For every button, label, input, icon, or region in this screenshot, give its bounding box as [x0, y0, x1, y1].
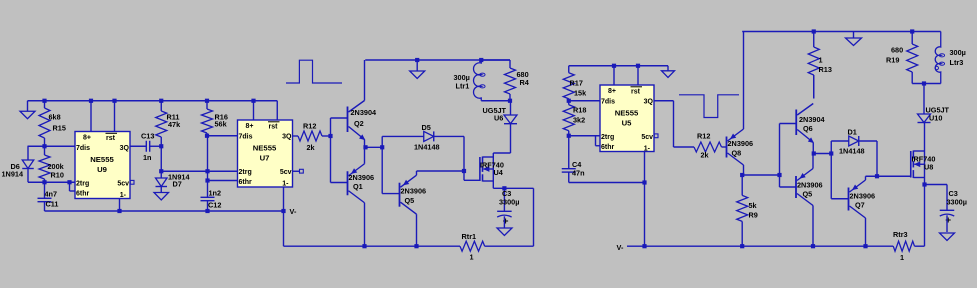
svg-text:Q6: Q6: [803, 124, 813, 133]
capacitor C11: [38, 182, 52, 211]
node dot D5 branch: [380, 145, 384, 149]
svg-text:2N3906: 2N3906: [850, 192, 876, 201]
wire R18 to U5 2trg: [569, 135, 600, 137]
diode U10 UG5JT: [918, 84, 931, 123]
node dot Q1 col rail: [362, 244, 366, 248]
wire U8 source: [924, 178, 926, 185]
wire 6thr jog U9: [70, 182, 76, 191]
svg-text:U10: U10: [929, 114, 942, 123]
svg-text:8+: 8+: [608, 88, 616, 95]
node dot V- right: [642, 244, 646, 248]
label C11 4n7: [45, 190, 59, 209]
wire Q5r collector down: [812, 206, 814, 247]
label Q5 left 2N3906: [401, 187, 427, 206]
resistor R11: [156, 101, 167, 147]
node dot mid gnd: [415, 58, 419, 62]
resistor R12 right: [694, 142, 727, 152]
wire D5 anode jog: [382, 136, 424, 147]
wire U9 rst: [114, 101, 116, 132]
mosfet U4 IRF740: [480, 157, 493, 182]
resistor R19: [907, 32, 918, 84]
svg-text:1-: 1-: [282, 181, 289, 188]
wire U7 pin1 down: [283, 188, 285, 247]
node dot R9 bottom: [740, 244, 744, 248]
transistor Q2 2N3904: [348, 101, 365, 140]
label U10 UG5JT: [926, 106, 950, 123]
node dot base bus: [777, 173, 781, 177]
node dot U7 8+: [251, 99, 255, 103]
svg-text:3Q: 3Q: [120, 145, 130, 152]
wire U5 rst: [637, 66, 639, 85]
svg-text:R9: R9: [749, 211, 758, 220]
svg-text:2trg: 2trg: [601, 134, 614, 141]
svg-text:U5: U5: [622, 119, 633, 128]
node dot R18 bottom: [567, 134, 571, 138]
resistor Rtr1: [460, 241, 534, 251]
svg-text:1n2: 1n2: [209, 189, 222, 198]
svg-text:R10: R10: [51, 171, 64, 180]
wire R13 to Q6 collector: [813, 75, 815, 99]
wire U5 pin1 down: [644, 152, 646, 247]
label Ltr1 300u: [454, 73, 470, 91]
node dot trg row C12: [205, 169, 209, 173]
resistor R9: [737, 175, 748, 246]
svg-text:V-: V-: [617, 243, 624, 252]
mosfet U8 IRF740: [911, 151, 925, 179]
label R9 5k: [749, 201, 758, 220]
svg-text:NE555: NE555: [90, 155, 114, 164]
resistor Rtr3: [893, 241, 924, 251]
phase marker Lts3: [935, 66, 938, 69]
wire D1 cathode: [859, 141, 877, 176]
wire C4 to pin1 node: [569, 182, 645, 184]
wire Q2 base jog: [331, 118, 348, 136]
wire source to C3 right: [925, 185, 948, 211]
svg-text:rst: rst: [106, 135, 116, 142]
ground under D7: [154, 193, 169, 201]
wire U5 3Q out: [654, 101, 694, 147]
svg-text:2trg: 2trg: [76, 180, 89, 187]
transistor Q5 2N3906 left: [400, 175, 417, 214]
wire U7 5cv stub: [293, 169, 303, 173]
capacitor C4: [562, 136, 576, 183]
svg-text:1N4148: 1N4148: [839, 147, 865, 156]
wire Q8 emitter up: [743, 32, 745, 130]
svg-text:Q8: Q8: [732, 149, 742, 158]
wire top rail U5: [569, 65, 668, 67]
svg-text:R4: R4: [520, 78, 530, 87]
wire Q5r emitter up: [812, 154, 814, 169]
diode U6 UG5JT: [504, 101, 517, 124]
capacitor C3 left: [497, 188, 512, 228]
svg-text:3Q: 3Q: [644, 98, 654, 105]
svg-text:R12: R12: [697, 132, 710, 141]
node dot U4 source: [502, 186, 506, 190]
transistor Q8 2N3906: [727, 129, 744, 165]
label U4 IRF740: [480, 161, 504, 178]
svg-text:R17: R17: [570, 79, 583, 88]
resistor R17: [563, 66, 574, 101]
wire Q5r base jog: [780, 175, 797, 187]
label D6 1N914: [2, 162, 24, 179]
ground at top-left rail: [20, 101, 35, 119]
wire Q5 emitter to gate node: [417, 171, 465, 175]
label C12 1n2: [208, 189, 221, 210]
ground U5 rail: [662, 66, 675, 78]
node dot R15 top: [42, 99, 46, 103]
svg-text:R15: R15: [53, 124, 66, 133]
wire C12 branch: [207, 136, 209, 198]
svg-text:D5: D5: [422, 123, 431, 132]
svg-text:2N3906: 2N3906: [349, 173, 375, 182]
wire 6thr row to U7: [208, 180, 238, 182]
transistor Q1 2N3906: [348, 164, 365, 203]
ground mid rail: [410, 60, 425, 79]
svg-text:3300µ: 3300µ: [499, 198, 519, 207]
svg-text:6thr: 6thr: [239, 179, 253, 186]
svg-text:R18: R18: [573, 106, 586, 115]
wire trg row to U7: [161, 170, 237, 172]
diode D6: [22, 160, 34, 182]
svg-text:R19: R19: [886, 56, 899, 65]
capacitor C12: [201, 197, 215, 211]
node dot Q8 col node: [740, 173, 744, 177]
wire V- rail upper left: [45, 210, 284, 212]
svg-text:47k: 47k: [168, 120, 181, 129]
wire top rail right: [742, 31, 941, 33]
node dot U5 pin1 node: [642, 180, 646, 184]
diode D1: [849, 136, 859, 146]
wire pulse annotation right: [679, 95, 739, 118]
svg-text:2N3906: 2N3906: [401, 187, 427, 196]
wire U9 pin1: [119, 199, 121, 212]
svg-text:5cv: 5cv: [641, 134, 653, 141]
svg-text:NE555: NE555: [253, 144, 277, 153]
label D1 1N4148: [839, 128, 865, 156]
svg-text:2k: 2k: [701, 151, 710, 160]
svg-text:3Q: 3Q: [282, 133, 292, 140]
svg-text:2N3904: 2N3904: [799, 115, 826, 124]
svg-text:6thr: 6thr: [76, 190, 90, 197]
wire Q7 collector down: [865, 218, 867, 246]
diode D7: [156, 178, 168, 193]
label Lts3 300u: [950, 48, 966, 67]
wire top rail left section: [28, 100, 278, 102]
svg-text:2trg: 2trg: [239, 169, 252, 176]
label Rtr1 1: [462, 232, 477, 262]
svg-text:56k: 56k: [215, 120, 228, 129]
label R17 15k: [570, 79, 588, 98]
svg-text:15k: 15k: [574, 89, 587, 98]
wire bottom rail left: [284, 245, 461, 247]
label R15 6k8: [49, 113, 66, 133]
node dot U8 source: [922, 182, 926, 186]
svg-text:Ltr1: Ltr1: [456, 82, 470, 91]
svg-text:C12: C12: [208, 201, 221, 210]
wire U8 drain up: [924, 123, 926, 152]
svg-text:680: 680: [891, 46, 903, 55]
op-amp U5 NE555 box: [600, 85, 654, 153]
node dot R16 bottom: [205, 134, 209, 138]
resistor R13: [808, 32, 819, 99]
svg-text:6thr: 6thr: [601, 144, 615, 151]
label R16 56k: [215, 113, 228, 129]
node dot R11 bottom: [159, 144, 163, 148]
op-amp U7 NE555 box: [238, 120, 293, 188]
svg-text:U9: U9: [97, 165, 107, 174]
svg-text:1-: 1-: [120, 192, 127, 199]
svg-text:R12: R12: [303, 122, 316, 131]
label C3 left 3300u: [499, 189, 519, 207]
svg-text:1: 1: [819, 56, 823, 65]
node dot V- corner: [281, 209, 285, 213]
node dot U5 8+ rail: [612, 64, 616, 68]
label V- left: [290, 207, 297, 216]
diode D5: [424, 131, 434, 141]
wire Q7 base drop: [831, 154, 848, 199]
ground under C3 left: [497, 228, 512, 236]
label Q8 2N3906: [728, 139, 754, 158]
svg-text:Q5: Q5: [405, 196, 415, 205]
transistor Q7 2N3906: [849, 180, 866, 218]
svg-text:2k: 2k: [307, 143, 316, 152]
svg-text:C11: C11: [46, 200, 59, 209]
wire U4 gate jog: [464, 171, 480, 180]
node dot Q7 col rail: [863, 244, 867, 248]
node dot 6thr row: [205, 178, 209, 182]
svg-text:2N3906: 2N3906: [728, 139, 754, 148]
svg-text:4n7: 4n7: [45, 190, 58, 199]
node dot Q5 col rail: [414, 244, 418, 248]
svg-text:1: 1: [470, 253, 474, 262]
wire R16 to U7 7dis: [207, 135, 238, 137]
svg-text:U4: U4: [494, 168, 504, 177]
pin square U5 5cv: [654, 134, 658, 138]
svg-text:C13: C13: [141, 132, 154, 141]
label C4 47n: [572, 160, 585, 178]
svg-text:5cv: 5cv: [117, 180, 129, 187]
wire bottom link L R4: [481, 100, 510, 102]
wire V- rail right: [627, 245, 893, 247]
svg-text:NE555: NE555: [615, 109, 639, 118]
node dot U9 rst: [112, 99, 116, 103]
label D7 1N914: [168, 173, 190, 189]
node dot U9 8+: [89, 99, 93, 103]
svg-text:300µ: 300µ: [950, 48, 966, 57]
resistor R18: [563, 101, 574, 136]
wire R19 Lts3 bottom: [912, 83, 941, 85]
node dot U6 top: [508, 99, 512, 103]
wire Q2 emitter down: [364, 140, 366, 148]
svg-text:Ltr3: Ltr3: [950, 58, 964, 67]
svg-text:7dis: 7dis: [601, 98, 615, 105]
ground right rail: [846, 32, 862, 46]
wire D5 cathode to gate: [434, 136, 464, 171]
label Rtr3 1: [893, 230, 908, 262]
node dot R16 top: [205, 99, 209, 103]
svg-text:R13: R13: [819, 65, 832, 74]
wire U7 8+ supply: [253, 101, 255, 120]
label U8 IRF740: [912, 155, 936, 172]
svg-text:rst: rst: [269, 124, 279, 131]
label R13 1: [819, 56, 832, 75]
label R4 680: [517, 70, 530, 87]
wire Q6 base: [780, 123, 797, 125]
node dot Ltr1 top: [479, 58, 483, 62]
wire D6 anode drop: [27, 146, 29, 160]
svg-text:Q1: Q1: [353, 182, 363, 191]
wire Q7 emitter to gate row: [866, 176, 911, 180]
node dot trg branch: [67, 180, 71, 184]
svg-text:U8: U8: [924, 163, 933, 172]
wire Q2 collector up: [364, 60, 366, 101]
wire U7 rst: [276, 101, 278, 120]
wire Q5 collector down: [416, 214, 418, 246]
wire U4 drain up: [493, 124, 510, 157]
label Q1 2N3906: [349, 173, 375, 191]
wire rail up to source: [924, 185, 926, 247]
wire Ltr1 R4 top link: [481, 59, 510, 61]
node dot D7 branch: [159, 169, 163, 173]
inductor Lts3: [935, 32, 944, 84]
node dot R12 out: [328, 134, 332, 138]
wire base bus vertical: [779, 124, 781, 176]
label R19 680: [886, 46, 903, 65]
resistor R15: [39, 101, 50, 147]
wire U9 8+ supply: [90, 101, 92, 132]
resistor R12 left: [293, 131, 331, 141]
wire R17 to U5 7dis: [569, 100, 600, 102]
label R10 200k: [48, 162, 65, 180]
wire emitters to D1 node: [814, 153, 832, 155]
wire R11 to D7: [160, 146, 162, 178]
svg-text:3k2: 3k2: [573, 116, 585, 125]
svg-text:Q7: Q7: [855, 201, 865, 210]
node dot R10 bottom: [42, 180, 46, 184]
svg-text:1N4148: 1N4148: [414, 143, 440, 152]
node dot Q5r col rail: [811, 244, 815, 248]
label R12 left 2k: [303, 122, 316, 153]
node dot gate U4: [462, 169, 466, 173]
wire D1 anode jog: [831, 141, 849, 154]
node dot gate U8: [875, 174, 879, 178]
label Q5 right 2N3906: [797, 181, 823, 199]
label C3 right 3300u: [947, 189, 967, 207]
node dot R13 top: [812, 29, 816, 33]
label R12 right 2k: [697, 132, 710, 160]
svg-text:8+: 8+: [83, 135, 91, 142]
svg-text:Q2: Q2: [354, 119, 364, 128]
capacitor C13: [146, 141, 161, 152]
node dot U5 rst rail: [636, 64, 640, 68]
svg-text:2N3904: 2N3904: [351, 108, 378, 117]
label Q7 2N3906: [850, 192, 876, 210]
svg-text:5cv: 5cv: [280, 169, 292, 176]
svg-text:1N914: 1N914: [2, 170, 24, 179]
node dot R11 top: [159, 99, 163, 103]
wire emitters node right: [366, 146, 383, 148]
wire Q1 base drop: [331, 136, 348, 183]
svg-text:2N3906: 2N3906: [797, 181, 823, 190]
wire Q5 base drop: [382, 147, 399, 193]
wire trigger node row: [28, 181, 75, 183]
svg-text:1-: 1-: [644, 146, 651, 153]
wire C3 right branch: [504, 188, 533, 246]
svg-text:6k8: 6k8: [49, 113, 61, 122]
pin square U9 5cv: [130, 180, 134, 184]
svg-text:7dis: 7dis: [239, 133, 253, 140]
svg-text:Q5: Q5: [803, 189, 813, 198]
label C13 1n: [141, 132, 154, 163]
svg-text:5k: 5k: [749, 201, 758, 210]
node dot D1 branch: [829, 151, 833, 155]
inductor Ltr1: [474, 60, 486, 101]
svg-text:3300µ: 3300µ: [947, 198, 967, 207]
wire Q1 collector down: [364, 203, 366, 246]
ground under C3 right: [940, 233, 955, 241]
svg-text:Rtr1: Rtr1: [462, 232, 477, 241]
svg-text:1n: 1n: [143, 153, 152, 162]
label U6 UG5JT: [483, 106, 507, 123]
label Q6 2N3904: [799, 115, 826, 133]
node dot emitters right: [812, 151, 816, 155]
resistor R16: [202, 101, 213, 136]
wire U5 8+ supply: [613, 66, 615, 85]
wire U4 source: [493, 181, 504, 188]
transistor Q5 2N3906 right: [796, 169, 813, 206]
label D5 1N4148: [414, 123, 440, 152]
wire mid rail: [365, 59, 510, 61]
op-amp U9 NE555 box: [75, 132, 130, 200]
resistor R10: [39, 146, 50, 182]
wire rail to U9 7dis: [28, 145, 76, 147]
node dot U10 top: [922, 81, 926, 85]
wire Q6 emitter down: [812, 143, 814, 154]
node dot U9 pin1: [117, 209, 121, 213]
svg-text:rst: rst: [631, 89, 641, 96]
wire Q8col to basebus: [742, 174, 779, 176]
svg-text:1: 1: [900, 253, 904, 262]
svg-text:47n: 47n: [572, 169, 585, 178]
transistor Q6 2N3904: [796, 104, 813, 143]
svg-text:U7: U7: [260, 154, 270, 163]
svg-text:D1: D1: [848, 128, 857, 137]
resistor R4: [505, 60, 516, 101]
label Q2 2N3904: [351, 108, 378, 128]
node dot emitters: [363, 145, 367, 149]
wire U9 3Q out: [130, 145, 146, 147]
node dot R19 top: [910, 29, 914, 33]
node dot R15 bottom: [42, 144, 46, 148]
svg-text:D7: D7: [173, 180, 182, 189]
node dot C12 bottom: [205, 209, 209, 213]
wire Q1 emitter up: [364, 147, 366, 163]
wire Q8 collector down: [743, 165, 745, 175]
wire U5 6thr jog: [596, 136, 601, 146]
capacitor C3 right: [940, 210, 955, 232]
node dot R17 bottom: [567, 99, 571, 103]
wire pulse annotation left: [286, 60, 342, 83]
label V- right: [617, 243, 624, 252]
label R18 3k2: [573, 106, 586, 125]
svg-text:V-: V-: [290, 207, 297, 216]
label R11 47k: [167, 113, 182, 130]
svg-text:7dis: 7dis: [76, 145, 90, 152]
svg-text:8+: 8+: [246, 123, 254, 130]
svg-text:U6: U6: [494, 114, 503, 123]
svg-text:Rtr3: Rtr3: [893, 230, 908, 239]
